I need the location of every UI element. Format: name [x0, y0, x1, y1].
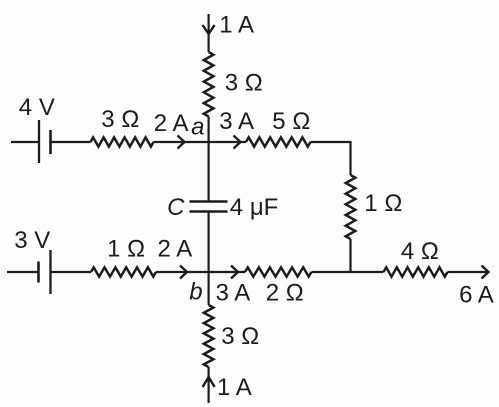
svg-text:3 Ω: 3 Ω	[221, 323, 259, 350]
svg-text:a: a	[191, 114, 204, 141]
svg-text:3 V: 3 V	[14, 227, 50, 254]
svg-text:3 Ω: 3 Ω	[225, 70, 263, 97]
svg-text:1 Ω: 1 Ω	[107, 235, 145, 262]
svg-text:3 A: 3 A	[219, 108, 254, 135]
svg-text:b: b	[189, 279, 202, 306]
svg-text:5 Ω: 5 Ω	[272, 108, 310, 135]
svg-text:1 Ω: 1 Ω	[364, 190, 402, 217]
svg-text:4 Ω: 4 Ω	[401, 238, 439, 265]
svg-text:6 A: 6 A	[459, 282, 494, 309]
svg-text:2 Ω: 2 Ω	[266, 280, 304, 307]
svg-text:3 A: 3 A	[216, 280, 251, 307]
svg-text:1 A: 1 A	[217, 374, 252, 401]
svg-text:3 Ω: 3 Ω	[101, 106, 139, 133]
svg-text:1 A: 1 A	[219, 12, 254, 39]
svg-text:4 V: 4 V	[19, 94, 55, 121]
svg-text:4 μF: 4 μF	[230, 194, 279, 221]
svg-text:2 A: 2 A	[154, 110, 189, 137]
svg-text:C: C	[167, 194, 185, 221]
svg-text:2 A: 2 A	[158, 235, 193, 262]
